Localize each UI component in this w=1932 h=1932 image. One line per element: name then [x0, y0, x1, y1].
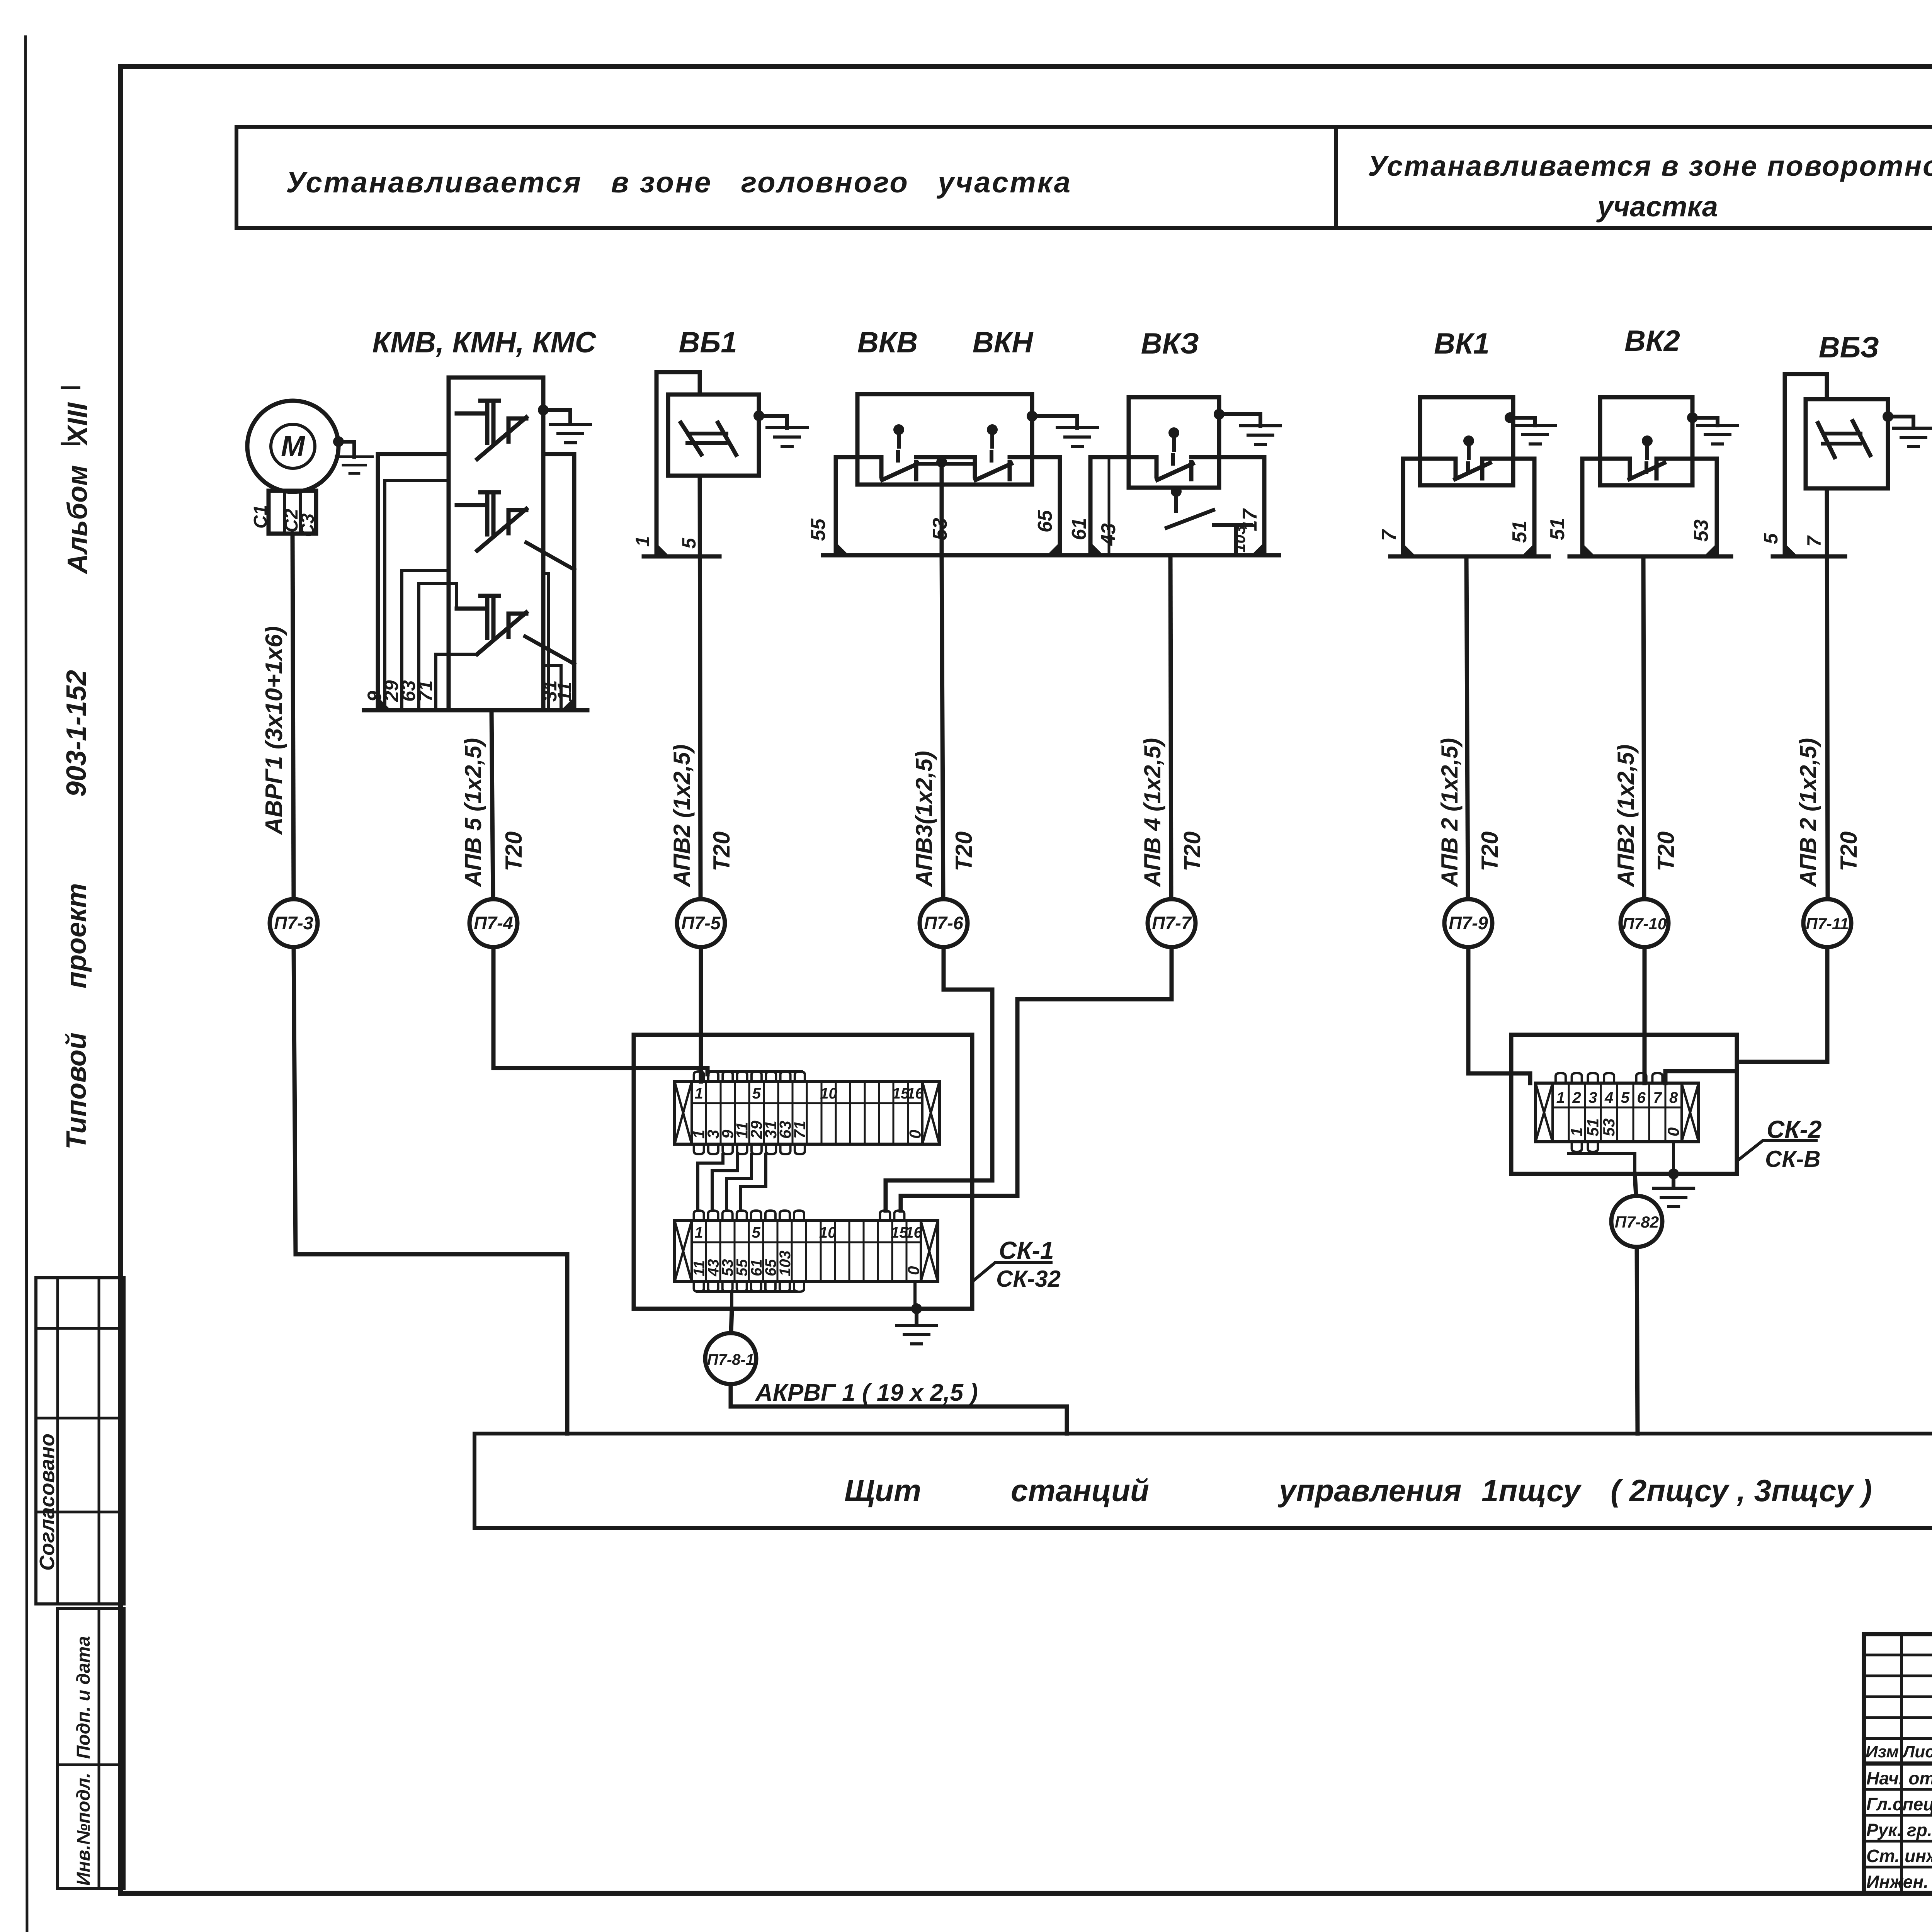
node П7-8-1 cable marker circle: [705, 1333, 756, 1384]
svg-text:Т20: Т20: [709, 832, 735, 871]
svg-text:ВК2: ВК2: [1624, 325, 1680, 357]
svg-text:П7-7: П7-7: [1152, 913, 1192, 933]
node P7-8-1: [731, 1309, 732, 1333]
svg-text:П7-10: П7-10: [1622, 915, 1667, 933]
VK1 pin contact: [1463, 435, 1474, 446]
VK2 bracket box: [1582, 459, 1717, 556]
svg-text:1: 1: [1556, 1089, 1565, 1106]
contactor KMV contact 3: [480, 596, 499, 638]
node П7-7 cable marker circle: [1148, 899, 1196, 947]
limit switch VB1 box: [668, 395, 759, 476]
title block upper small rows: [1864, 1654, 1932, 1656]
svg-text:0: 0: [906, 1130, 924, 1139]
svg-text:17: 17: [1239, 508, 1261, 531]
SK-1 upper terminal strip: [675, 1082, 939, 1144]
title block row lines: [1864, 1762, 1932, 1766]
contactor KMV contact 1: [480, 401, 499, 443]
SK-1 feed bus from P7-4 P7-5: [701, 1071, 801, 1082]
svg-text:СК-В: СК-В: [1765, 1146, 1821, 1172]
svg-text:П7-9: П7-9: [1449, 913, 1488, 933]
SK-1 upper strip top leads: [694, 1071, 805, 1082]
svg-text:5: 5: [1621, 1089, 1630, 1106]
svg-text:Рук. гр.: Рук. гр.: [1866, 1820, 1932, 1840]
svg-text:5: 5: [1760, 533, 1782, 544]
limit switch VB3 box: [1806, 399, 1888, 488]
switch pair VKV VKN upper box: [857, 394, 1032, 485]
svg-text:Инв.№подл.: Инв.№подл.: [73, 1773, 94, 1886]
svg-text:Устанавливается в зоне гол: Устанавливается в зоне головного участка: [286, 166, 1070, 199]
wire P7-5 to SK-1: [699, 947, 703, 1082]
node П7-10 cable marker circle: [1621, 899, 1668, 947]
VKV VKN bracket box: [836, 457, 1060, 555]
svg-text:51: 51: [1509, 520, 1531, 543]
svg-text:ХIII: ХIII: [62, 402, 93, 446]
VK2 blade: [1629, 463, 1664, 479]
wire VB1 to P7-5, cable АПВ2: [700, 476, 701, 899]
switch VKZ upper box: [1129, 397, 1219, 488]
svg-text:П7-4: П7-4: [474, 913, 513, 933]
svg-text:16: 16: [906, 1085, 924, 1102]
VB3 bottom bracket: [1773, 554, 1845, 559]
wire P7-6 to SK-1: [886, 947, 992, 1211]
svg-text:АПВ2 (1х2,5): АПВ2 (1х2,5): [1613, 745, 1639, 888]
svg-text:АПВ 2 (1х2,5): АПВ 2 (1х2,5): [1437, 738, 1463, 888]
svg-text:проект: проект: [61, 883, 92, 989]
svg-text:( 2пщсу , 3пщсу ): ( 2пщсу , 3пщсу ): [1611, 1473, 1872, 1508]
header divider 1: [1334, 127, 1338, 228]
svg-text:АВРГ1 (3х10+1х6): АВРГ1 (3х10+1х6): [261, 626, 287, 835]
svg-text:М: М: [281, 430, 305, 462]
svg-text:Т20: Т20: [1477, 832, 1503, 871]
svg-text:Т20: Т20: [951, 832, 977, 871]
wire VB3 to P7-11, cable АПВ2: [1827, 488, 1828, 899]
svg-text:10: 10: [820, 1085, 837, 1102]
VKV pin contact: [893, 424, 904, 435]
wire motor to P7-3, cable АВРГ1: [293, 534, 294, 899]
svg-text:71: 71: [791, 1121, 809, 1139]
node П7-5 cable marker circle: [677, 899, 725, 947]
VK2 pin contact: [1642, 435, 1653, 446]
motor ground: [333, 436, 344, 447]
node P7-82: [1635, 1174, 1636, 1196]
svg-text:65: 65: [1034, 510, 1056, 532]
svg-text:АКРВГ 1 ( 19 х 2,5 ): АКРВГ 1 ( 19 х 2,5 ): [755, 1379, 978, 1406]
svg-text:1: 1: [632, 536, 653, 547]
svg-text:Согласовано: Согласовано: [36, 1434, 59, 1571]
wire VK1 to P7-9, cable АПВ2: [1466, 556, 1468, 899]
wire P7-8-1 to control board, cable АКРВГ1: [731, 1384, 1067, 1434]
contactor KMV internal wiring left: [385, 480, 477, 710]
node П7-4 cable marker circle: [469, 899, 517, 947]
svg-text:0: 0: [1664, 1128, 1682, 1136]
VKZ internal terminal line 43: [1108, 457, 1111, 555]
left margin approval table: [36, 1278, 124, 1604]
svg-text:7: 7: [1803, 535, 1825, 547]
svg-text:АПВ2 (1х2,5): АПВ2 (1х2,5): [669, 745, 695, 888]
node П7-11 cable marker circle: [1803, 899, 1851, 947]
svg-text:16: 16: [905, 1224, 922, 1241]
svg-text:5: 5: [752, 1224, 761, 1241]
VKN blade: [976, 464, 1011, 480]
svg-text:АПВ 2 (1х2,5): АПВ 2 (1х2,5): [1795, 738, 1821, 888]
svg-text:С3: С3: [298, 513, 318, 537]
svg-text:СК-2: СК-2: [1767, 1116, 1821, 1143]
svg-text:П7-6: П7-6: [924, 913, 964, 933]
svg-text:Т20: Т20: [1836, 832, 1862, 871]
title block outer: [1864, 1634, 1932, 1893]
VB1 bottom bracket: [644, 554, 719, 559]
wire VKV/VKN to P7-6, cable АПВ3: [942, 555, 943, 899]
svg-text:7: 7: [1378, 529, 1400, 541]
svg-text:1пщсу: 1пщсу: [1481, 1473, 1582, 1508]
svg-text:станций: станций: [1011, 1473, 1149, 1508]
VK1 ground: [1505, 412, 1515, 423]
SK-1 outgoing bus to P7-8-1: [698, 1292, 796, 1309]
contactor KMV ground: [538, 405, 549, 415]
SK-1 upper strip bottom leads: [694, 1144, 805, 1154]
SK-2 label leader: [1737, 1141, 1816, 1161]
svg-text:53: 53: [929, 518, 951, 540]
SK-2 terminal strip: [1536, 1083, 1699, 1142]
wire P7-11 to SK-2: [1665, 947, 1827, 1083]
svg-text:Изм: Изм: [1866, 1742, 1899, 1761]
VK2 ground: [1687, 412, 1698, 423]
VKV VKN ground: [1027, 411, 1037, 422]
svg-text:Нач. отд: Нач. отд: [1866, 1768, 1932, 1788]
control board box ЩСУ: [474, 1434, 1932, 1528]
contactor KMV crossover diagonals: [525, 543, 574, 664]
VKV VKN middle junction: [936, 457, 947, 468]
svg-text:АПВ 5 (1х2,5): АПВ 5 (1х2,5): [460, 738, 486, 888]
svg-text:0: 0: [904, 1266, 922, 1275]
wire VKZ to P7-7, cable АПВ4: [1170, 555, 1171, 899]
wire P7-9 to SK-2: [1468, 947, 1530, 1083]
SK-2 ground drop: [1672, 1142, 1675, 1174]
VKN pin contact: [987, 424, 998, 435]
svg-text:Инжен.: Инжен.: [1866, 1872, 1929, 1892]
svg-text:1: 1: [1568, 1128, 1586, 1136]
VKZ ground: [1214, 409, 1225, 420]
svg-text:1: 1: [695, 1085, 703, 1102]
SK-1 lower terminal strip: [675, 1221, 938, 1282]
svg-text:7: 7: [1653, 1089, 1662, 1106]
svg-text:Щит: Щит: [844, 1473, 921, 1508]
svg-text:51: 51: [1546, 518, 1569, 540]
svg-text:1: 1: [694, 1224, 703, 1241]
wire P7-82 to control board: [1637, 1247, 1638, 1434]
svg-text:Т20: Т20: [1653, 832, 1679, 871]
SK-1 lower strip top leads: [694, 1211, 905, 1221]
SK-2 outgoing drop to P7-82: [1569, 1153, 1635, 1174]
paper scan edge left: [26, 37, 27, 1932]
svg-text:Ст. инж: Ст. инж: [1866, 1846, 1932, 1866]
svg-text:ВКЗ: ВКЗ: [1141, 327, 1199, 360]
svg-text:Т20: Т20: [501, 832, 527, 871]
VKZ blade 2: [1167, 510, 1251, 555]
svg-text:5: 5: [678, 537, 700, 549]
svg-text:Устанавливается в зоне поворо: Устанавливается в зоне поворотного: [1368, 150, 1932, 182]
svg-text:Типовой: Типовой: [61, 1032, 92, 1150]
wire P7-10 to SK-2: [1643, 947, 1647, 1083]
svg-text:3: 3: [1588, 1089, 1597, 1106]
svg-text:ВК1: ВК1: [1434, 327, 1490, 360]
svg-text:КМВ, КМН, КМС: КМВ, КМН, КМС: [372, 326, 596, 359]
title block header row line: [1864, 1737, 1932, 1740]
contactor KMV contact 2: [480, 492, 499, 534]
connector box SK-2: [1511, 1035, 1737, 1174]
switch VK2 box: [1600, 397, 1692, 485]
svg-text:71: 71: [415, 680, 436, 702]
SK-1 label leader: [972, 1262, 1051, 1282]
VB3 top loop to terminal 5: [1785, 374, 1827, 556]
svg-text:4: 4: [1604, 1089, 1613, 1106]
svg-text:ВБ1: ВБ1: [679, 326, 737, 359]
VKZ blade 1: [1157, 464, 1193, 480]
SK-2 strip bottom leads: [1572, 1142, 1598, 1152]
svg-text:6: 6: [1637, 1089, 1646, 1106]
contactor KMV/KMN/KMS assembly: [364, 378, 587, 710]
contactor KMV internal wiring right: [543, 573, 561, 710]
svg-text:ВКВ: ВКВ: [857, 326, 918, 359]
svg-text:11: 11: [554, 682, 575, 702]
left margin inventory table: [58, 1609, 124, 1889]
svg-text:АПВ3(1х2,5): АПВ3(1х2,5): [911, 751, 937, 888]
node П7-9 cable marker circle: [1444, 899, 1492, 947]
svg-text:61: 61: [1068, 518, 1090, 540]
VB1 ground: [753, 410, 764, 421]
connector box SK-1: [634, 1035, 972, 1309]
node П7-3 cable marker circle: [270, 899, 318, 947]
wire P7-7 to SK-1: [901, 947, 1172, 1211]
svg-text:Альбом: Альбом: [62, 465, 93, 575]
svg-text:Подп. и дата: Подп. и дата: [73, 1636, 94, 1759]
svg-text:управления: управления: [1277, 1473, 1462, 1508]
svg-text:П7-3: П7-3: [274, 913, 313, 933]
VB1 top loop to terminal 1: [656, 372, 700, 556]
svg-text:Лист: Лист: [1902, 1742, 1932, 1761]
VK1 blade: [1455, 463, 1490, 479]
VKZ pin contact: [1168, 427, 1179, 438]
header zone box: [236, 127, 1932, 228]
svg-text:43: 43: [1097, 523, 1120, 546]
motor terminal box C1 C2 C3: [250, 491, 318, 537]
svg-text:103: 103: [777, 1250, 794, 1276]
VKZ bracket box: [1090, 457, 1264, 555]
VK1 bracket box: [1403, 459, 1534, 556]
svg-text:8: 8: [1669, 1089, 1678, 1106]
title block left table columns: [1900, 1634, 1903, 1893]
svg-text:СК-32: СК-32: [996, 1266, 1061, 1292]
svg-text:5: 5: [752, 1085, 761, 1102]
svg-text:С1: С1: [250, 505, 271, 529]
svg-text:Т20: Т20: [1179, 832, 1205, 871]
svg-text:2: 2: [1572, 1089, 1581, 1106]
svg-text:участка: участка: [1596, 190, 1718, 223]
wire P7-3 to control board: [294, 947, 567, 1434]
svg-text:903-1-152: 903-1-152: [61, 670, 92, 797]
svg-text:10: 10: [819, 1224, 837, 1241]
SK-1 internal jumpers: [698, 1154, 766, 1211]
VB3 ground: [1883, 411, 1893, 422]
svg-text:П7-8-1: П7-8-1: [707, 1351, 754, 1368]
SK-2 strip top leads: [1556, 1073, 1663, 1083]
VKV blade: [882, 464, 918, 480]
wire VK2 to P7-10, cable АПВ2: [1643, 556, 1644, 899]
svg-text:Гл.спец.: Гл.спец.: [1866, 1794, 1932, 1814]
svg-text:СК-1: СК-1: [999, 1236, 1054, 1264]
SK-1 lower strip bottom leads: [694, 1282, 804, 1292]
svg-text:П7-11: П7-11: [1806, 915, 1849, 933]
svg-text:ВБЗ: ВБЗ: [1819, 331, 1879, 364]
svg-text:П7-5: П7-5: [681, 913, 721, 933]
svg-text:АПВ 4 (1х2,5): АПВ 4 (1х2,5): [1139, 738, 1165, 888]
svg-text:51: 51: [1583, 1118, 1602, 1136]
switch VK1 box: [1420, 397, 1513, 485]
motor M circle: [247, 401, 338, 492]
svg-text:ВКН: ВКН: [973, 326, 1034, 359]
SK-1 ground drop: [913, 1282, 917, 1309]
node П7-6 cable marker circle: [920, 899, 968, 947]
wire P7-4 to SK-1: [493, 947, 707, 1074]
VKZ second pin contact: [1171, 486, 1182, 497]
svg-text:53: 53: [1690, 519, 1713, 542]
svg-text:П7-82: П7-82: [1615, 1213, 1659, 1231]
svg-text:53: 53: [1600, 1118, 1618, 1136]
wire KMV to P7-4, cable АПВ5: [492, 710, 493, 899]
node П7-82 cable marker circle: [1611, 1196, 1662, 1247]
svg-text:55: 55: [807, 518, 830, 541]
